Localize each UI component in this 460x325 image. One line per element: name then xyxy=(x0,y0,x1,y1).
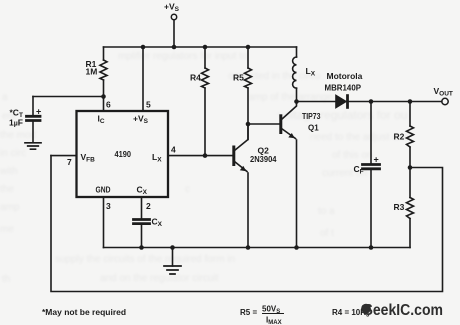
capacitor CF xyxy=(370,102,372,164)
svg-text:mplifier regulators for input: mplifier regulators for input to xyxy=(118,51,248,62)
junction Vout rail/R2 xyxy=(408,99,413,104)
resistor R5 xyxy=(247,47,249,140)
svg-text:6: 6 xyxy=(106,100,111,110)
junction rail/R4 xyxy=(203,45,208,50)
svg-text:to a: to a xyxy=(318,206,335,217)
junction bus/ground xyxy=(170,245,175,250)
svg-text:CX: CX xyxy=(137,185,148,197)
wire top supply rail xyxy=(104,46,297,48)
diode D1 MBR140P xyxy=(336,96,346,108)
junction Vout rail/CF xyxy=(369,99,374,104)
capacitor CX xyxy=(134,220,150,224)
transistor Q1 emitter arrow xyxy=(288,133,295,138)
svg-text:IC: IC xyxy=(98,114,105,126)
inductor Lx xyxy=(293,57,297,88)
svg-text:+: + xyxy=(374,155,379,165)
svg-text:amp: amp xyxy=(0,202,20,213)
svg-text:7: 7 xyxy=(67,157,72,167)
wire pin 4 Lx output to Q2 base xyxy=(168,155,233,157)
wire inductor to collector node xyxy=(296,88,298,101)
svg-text:VOUT: VOUT xyxy=(434,86,453,98)
svg-text:the mod: the mod xyxy=(0,130,36,141)
svg-text:TIP73: TIP73 xyxy=(302,112,321,121)
junction R5/Q2 collector/Q1 base xyxy=(246,122,251,127)
junction R2/R3/feedback xyxy=(408,165,413,170)
svg-text:of this on: of this on xyxy=(332,150,373,161)
ground (main) xyxy=(172,248,174,267)
junction bus/Q1 emitter xyxy=(294,245,299,250)
junction bus/CF xyxy=(369,245,374,250)
svg-text:th: th xyxy=(2,274,10,285)
svg-text:supply the circuits of the req: supply the circuits of the required form… xyxy=(55,254,235,265)
svg-text:in circ: in circ xyxy=(0,148,26,159)
svg-text:+VS: +VS xyxy=(133,114,149,126)
watermark SeekIC.com xyxy=(361,302,443,319)
svg-text:GND: GND xyxy=(96,185,111,195)
svg-text:+VS: +VS xyxy=(164,2,180,14)
svg-text:IMAX: IMAX xyxy=(266,316,282,325)
svg-text:LX: LX xyxy=(152,152,162,164)
svg-text:3: 3 xyxy=(106,201,111,211)
svg-text:2N3904: 2N3904 xyxy=(250,154,277,164)
svg-text:a: a xyxy=(2,92,8,103)
wire rail corner to inductor xyxy=(296,47,298,57)
wire Q2 collector / R5 node to Q1 base xyxy=(248,123,280,125)
wire CT to R1 node xyxy=(33,96,104,98)
wire +Vs terminal to rail xyxy=(173,20,175,47)
svg-text:4190: 4190 xyxy=(115,149,132,159)
svg-text:1µF: 1µF xyxy=(9,118,23,128)
svg-text:me: me xyxy=(0,224,14,235)
svg-text:VFB: VFB xyxy=(81,152,96,164)
svg-text:LX: LX xyxy=(306,66,316,78)
capacitor CT xyxy=(32,97,34,115)
wire feedback loop xyxy=(51,156,443,292)
svg-text:with: with xyxy=(0,166,18,177)
wire pin 2 to CX xyxy=(141,197,143,218)
svg-text:*May not be required: *May not be required xyxy=(42,307,126,317)
svg-text:MBR140P: MBR140P xyxy=(325,83,362,93)
transistor Q2 2N3904 xyxy=(232,147,235,165)
svg-text:R5: R5 xyxy=(233,73,244,83)
op IC U1 4190 box xyxy=(77,111,169,197)
svg-text:c: c xyxy=(185,184,190,195)
resistor R1 xyxy=(103,47,105,111)
svg-text:SeekIC.com: SeekIC.com xyxy=(364,302,444,319)
wire pin5 from rail xyxy=(142,47,144,111)
wire ground/emitter bus xyxy=(104,247,411,249)
junction bus/Q2 emitter xyxy=(246,245,251,250)
svg-text:the: the xyxy=(0,184,14,195)
svg-text:Motorola: Motorola xyxy=(327,71,363,81)
transistor Q1 TIP73 xyxy=(279,116,282,133)
svg-text:R5 =: R5 = xyxy=(240,308,257,317)
junction rail/R5 xyxy=(246,45,251,50)
svg-text:R2: R2 xyxy=(394,132,405,142)
junction R4/pin4 wire xyxy=(203,153,208,158)
svg-text:voltage regulators for ou: voltage regulators for ou xyxy=(278,108,407,122)
wire diode to Vout xyxy=(349,101,442,103)
transistor Q2 emitter arrow xyxy=(240,166,247,171)
svg-text:+: + xyxy=(36,107,41,117)
wire pin 3 GND xyxy=(103,197,105,248)
junction rail/+Vs xyxy=(172,45,177,50)
svg-text:1M: 1M xyxy=(86,67,98,77)
resistor R4 xyxy=(204,47,206,156)
junction Lx/Q1 collector/diode xyxy=(294,99,299,104)
wire pin 7 VFB stub xyxy=(51,155,77,157)
svg-text:4: 4 xyxy=(171,145,176,155)
svg-text:5: 5 xyxy=(146,100,151,110)
svg-text:2: 2 xyxy=(146,201,151,211)
svg-text:of t: of t xyxy=(320,228,334,239)
node Vout terminal xyxy=(442,98,448,104)
ground (CT) xyxy=(25,143,41,149)
resistor R3 xyxy=(409,168,411,248)
svg-text:Q1: Q1 xyxy=(308,124,319,133)
junction rail/pin5 xyxy=(141,45,146,50)
wire collector node to diode xyxy=(297,101,337,103)
junction R1/CT/pin6 xyxy=(101,94,106,99)
resistor R2 xyxy=(409,102,411,168)
svg-text:R4: R4 xyxy=(190,73,201,83)
svg-text:and on the regulator circuit: and on the regulator circuit xyxy=(100,273,219,284)
junction bus/CX xyxy=(139,245,144,250)
node +Vs supply terminal xyxy=(171,14,176,19)
svg-text:R3: R3 xyxy=(394,202,405,212)
svg-text:CX: CX xyxy=(152,217,163,229)
